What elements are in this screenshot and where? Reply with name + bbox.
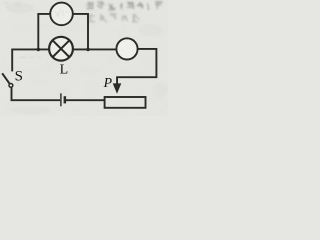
rheostat wiper arrowhead (113, 83, 122, 93)
svg-text:S: S (15, 69, 23, 85)
lamp L (circle with X) (49, 37, 73, 61)
wire: voltmeter left lead down to lamp-row junction (38, 14, 50, 50)
meter A1 (right meter circle) (116, 38, 137, 59)
battery cell: long thin positive plate (60, 93, 61, 106)
wire: voltmeter right lead down to lamp-row junction (73, 14, 88, 50)
wire: lamp row middle segment (lamp to ammeter) (73, 48, 117, 50)
rheostat body (resistor box) (105, 97, 146, 108)
wire: ammeter right lead, down right side to rheostat wiper (118, 49, 156, 77)
battery cell: short thick negative plate (64, 96, 67, 103)
wire: battery to rheostat left terminal (66, 99, 105, 101)
meter V1 (upper meter circle, worn faint marking inside) (50, 3, 73, 26)
switch S pivot contact (9, 84, 13, 88)
node: voltmeter-lamp junction right (86, 48, 90, 52)
wire: switch bottom terminal down and bottom rail to battery (12, 87, 61, 100)
svg-text:L: L (60, 63, 69, 78)
rheostat wiper arrow shaft (116, 76, 118, 84)
switch S blade (2, 73, 9, 83)
svg-text:P: P (103, 75, 113, 90)
node: voltmeter-lamp junction left (37, 48, 41, 52)
wire: lamp row left segment with left rail down to switch (12, 49, 49, 71)
